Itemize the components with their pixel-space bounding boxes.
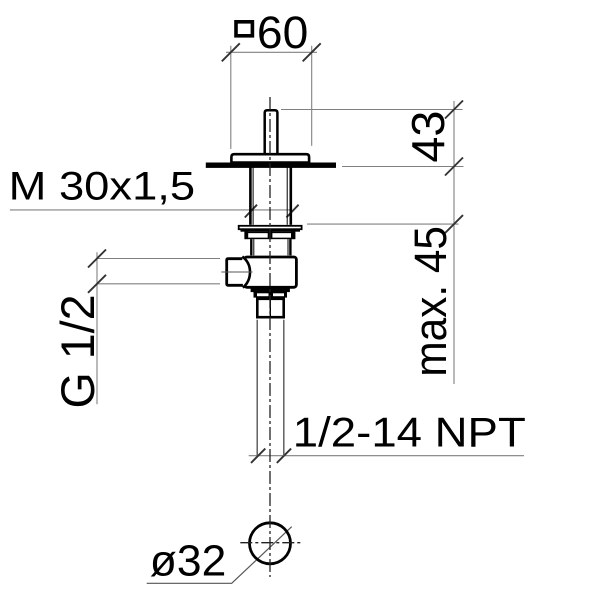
hex washer facet middle [269, 292, 274, 298]
G 1/2 dimension line [96, 252, 98, 404]
tick G12 bottom [88, 275, 106, 293]
G 1/2 extension line bottom [97, 283, 220, 285]
hex ring facet bar right [291, 232, 295, 240]
leader line d32 [147, 527, 292, 584]
tick 60 right [303, 43, 321, 61]
collar flange shadow bar [241, 229, 301, 232]
washer under body [252, 289, 290, 291]
tick M30 left [245, 205, 257, 218]
leader line M30 [10, 209, 291, 211]
G 1/2 extension line top [97, 258, 220, 260]
thread root line left [252, 167, 254, 225]
drain circle d32 [250, 523, 291, 564]
svg-text:43: 43 [402, 111, 454, 163]
valve body [244, 257, 296, 287]
neck inner line left [253, 239, 255, 255]
hex ring facet bar middle [268, 232, 273, 240]
tick 43 top [445, 101, 463, 119]
hex ring below flange [245, 232, 294, 238]
svg-text:ø32: ø32 [150, 537, 227, 586]
hex nut [257, 299, 283, 317]
extension line 43 top (stem level) [281, 109, 463, 111]
hex washer facet right [284, 292, 287, 298]
collar flange [239, 226, 302, 229]
neck left edge [250, 239, 252, 255]
vertical centerline [269, 97, 271, 577]
outlet fillet arc [242, 257, 250, 288]
extension line 60 left [230, 46, 232, 149]
tick 43 bottom [445, 158, 463, 176]
tick NPT right [277, 449, 291, 463]
neck right edge [289, 239, 291, 255]
tick NPT left [251, 449, 265, 463]
svg-text:M 30x1,5: M 30x1,5 [9, 164, 196, 208]
tick 60 left [222, 43, 240, 61]
extension line 60 right [311, 46, 313, 146]
svg-text:max. 45: max. 45 [405, 226, 456, 377]
dimension line right vertical [453, 101, 455, 384]
circle horizontal centerline [240, 542, 303, 544]
square symbol of dimension 60 [236, 22, 252, 36]
hex washer facet left [254, 292, 258, 298]
leader line NPT [249, 455, 524, 457]
svg-text:1/2-14 NPT: 1/2-14 NPT [293, 409, 526, 456]
tick G12 top [88, 250, 106, 268]
pipe right edge [283, 320, 285, 456]
hex washer ring [254, 293, 286, 297]
valve stem [265, 110, 278, 153]
pipe left edge [256, 320, 258, 456]
hex ring facet bar left [244, 232, 248, 240]
threaded tube M30 right edge [289, 167, 292, 225]
extension line 43 bottom / plate level [342, 166, 464, 168]
neck inner line right [287, 239, 289, 255]
svg-text:60: 60 [257, 7, 308, 58]
dimension line 60 [226, 51, 317, 53]
threaded tube M30 left edge [249, 167, 252, 225]
mounting plate [206, 163, 336, 168]
outlet centerline [221, 271, 252, 273]
escutcheon cap [231, 154, 309, 162]
svg-text:G 1/2: G 1/2 [51, 295, 104, 409]
hex nut facet line [269, 299, 271, 317]
thread root line right [286, 167, 288, 225]
tick M30 right [286, 205, 298, 218]
extension line max45 bottom (collar level) [307, 223, 459, 225]
side outlet port [227, 257, 250, 288]
tick max45 bottom [445, 215, 463, 233]
